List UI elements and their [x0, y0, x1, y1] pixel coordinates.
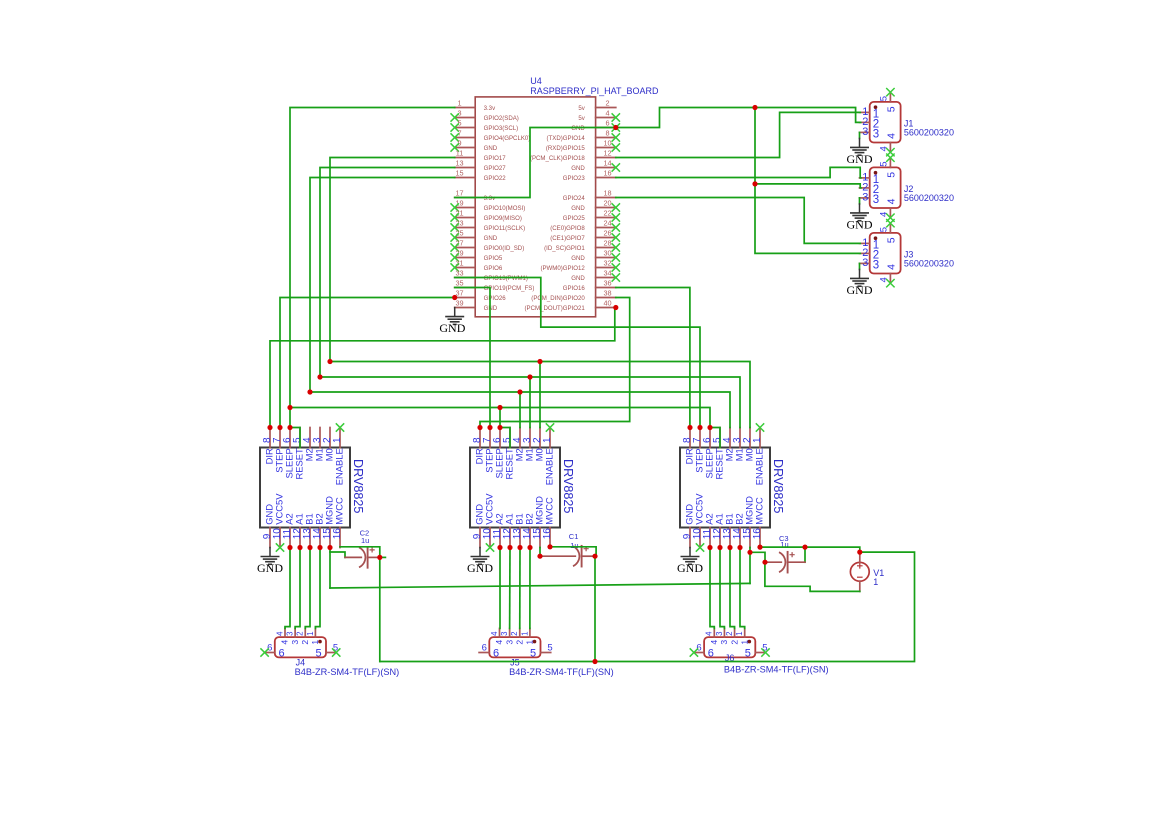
svg-text:3: 3: [873, 194, 879, 206]
U2 pin 4 M2: [512, 428, 525, 462]
wire M1 bus: [320, 377, 740, 428]
J6 pin 2: [725, 628, 739, 644]
svg-text:4: 4: [886, 133, 898, 139]
svg-text:5: 5: [547, 643, 552, 654]
wire U1 SLEEP-RESET jog: [290, 428, 300, 448]
svg-text:18: 18: [603, 189, 611, 198]
wire U1 SLEEP drop: [289, 408, 291, 428]
capacitor C3 1u: [779, 534, 795, 572]
svg-text:2: 2: [300, 640, 310, 645]
U2 pin 7 STEP: [482, 428, 495, 473]
U3 pin 2 M0: [742, 428, 755, 462]
svg-text:ENABLE: ENABLE: [334, 448, 345, 485]
J5 pin 1: [520, 628, 534, 644]
wire U3 A2 to J6 pin4: [710, 548, 714, 629]
U1 ENABLE no-connect X: [336, 423, 344, 431]
svg-text:J4: J4: [296, 658, 306, 668]
svg-text:3: 3: [286, 632, 295, 636]
svg-text:5: 5: [886, 237, 898, 243]
svg-text:5600200320: 5600200320: [904, 128, 954, 138]
svg-text:5: 5: [886, 172, 898, 178]
wire GPIO24 pin18 to J3 pin1: [616, 198, 860, 244]
wire M0 bus: [330, 362, 750, 428]
J1 pin 4 (bottom): [878, 133, 897, 157]
U2 pin 16 MVCC: [542, 497, 555, 548]
svg-text:5: 5: [530, 648, 536, 660]
svg-text:U4: U4: [530, 76, 542, 86]
svg-text:GPIO11(SCLK): GPIO11(SCLK): [484, 225, 526, 232]
wire U3 B1 to J6 pin2: [730, 548, 735, 629]
svg-text:5: 5: [886, 106, 898, 112]
svg-text:6: 6: [696, 643, 701, 654]
svg-text:GND: GND: [847, 152, 873, 166]
wire C2 positive lead: [368, 556, 380, 558]
wire U3 B2 to J6 pin1: [740, 548, 745, 629]
connector J3 5600200320 body: [870, 233, 954, 274]
U2 pin 3 M1: [522, 428, 535, 462]
U3 pin 3 M1: [732, 428, 745, 462]
svg-text:GND: GND: [571, 275, 585, 282]
svg-text:2: 2: [605, 99, 609, 108]
ground at J1 pin 3: [847, 132, 873, 165]
svg-text:GPIO10(MOSI): GPIO10(MOSI): [484, 205, 526, 212]
svg-text:6: 6: [267, 643, 272, 654]
U3 pin 8 DIR: [682, 428, 695, 465]
U4 pin 6 no-connect X under junction: [612, 123, 620, 131]
svg-text:GND: GND: [571, 165, 585, 172]
U2 pin 14 B2: [522, 513, 535, 547]
wire GPIO20 pin38 to U2 DIR: [480, 298, 630, 428]
svg-text:1u: 1u: [361, 536, 369, 545]
U1 pin 14 B2: [312, 513, 325, 547]
driver IC U3 DRV8825 body: [680, 448, 785, 528]
U1 pin 10 VCC5V: [272, 493, 285, 548]
wire U1 MVCC to C2 plus: [340, 547, 380, 558]
U1 pin 5 RESET: [292, 428, 305, 480]
U4 pin 21 GPIO9(MISO): [451, 209, 522, 222]
wire C2 plus down to supply line: [379, 557, 381, 661]
wire GPIO22 pin15 to M2 bus: [310, 178, 455, 393]
svg-text:28: 28: [603, 239, 611, 248]
wire GPIO23 pin16 to J2 pin1: [616, 167, 861, 178]
svg-text:1: 1: [310, 640, 320, 645]
J5 pin 5 (right): [530, 643, 553, 660]
svg-text:7: 7: [457, 129, 461, 138]
U4 pin 40 (PCM_DOUT)GPIO21: [525, 299, 616, 312]
svg-text:22: 22: [603, 209, 611, 218]
svg-text:GND: GND: [439, 321, 465, 335]
svg-text:J5: J5: [510, 658, 520, 668]
svg-text:33: 33: [455, 269, 463, 278]
svg-text:4: 4: [705, 631, 714, 636]
wire GPIO21 pin40 to U1 DIR: [270, 308, 616, 428]
wire GND pin6 to J trunk: [616, 108, 861, 128]
U4 pin 16 GPIO23: [563, 169, 616, 182]
svg-text:GPIO27: GPIO27: [484, 165, 507, 172]
U3 pin 12 A1: [712, 513, 725, 547]
U4 pin 29 GPIO5: [451, 249, 503, 262]
IC U4 RASPBERRY_PI_HAT_BOARD body: [475, 76, 659, 317]
U4 pin 20 GND: [571, 199, 620, 212]
svg-text:3: 3: [862, 192, 868, 204]
U4 pin 6 GND: [571, 119, 616, 132]
wire M2 bus drop to U2: [519, 392, 521, 428]
svg-text:4: 4: [275, 631, 284, 636]
svg-text:3: 3: [719, 640, 729, 645]
U3 pin 11 A2: [702, 513, 715, 547]
wire U3 MGND down to trunk: [749, 552, 751, 583]
svg-text:1: 1: [735, 632, 744, 636]
driver IC U1 DRV8825 body: [260, 448, 365, 528]
svg-text:ENABLE: ENABLE: [754, 448, 765, 485]
svg-text:GND: GND: [484, 145, 498, 152]
connector J2 5600200320 body: [870, 167, 954, 208]
svg-text:GPIO17: GPIO17: [484, 155, 507, 162]
svg-text:20: 20: [603, 199, 611, 208]
svg-text:(PCM_DOUT)GPIO21: (PCM_DOUT)GPIO21: [525, 305, 586, 312]
svg-text:GPIO24: GPIO24: [563, 195, 586, 202]
svg-text:6: 6: [605, 119, 609, 128]
svg-text:2: 2: [514, 640, 524, 645]
svg-text:5v: 5v: [578, 105, 585, 112]
svg-text:38: 38: [603, 289, 611, 298]
svg-text:3: 3: [504, 640, 514, 645]
svg-text:(RXD)GPIO15: (RXD)GPIO15: [546, 145, 586, 152]
U4 pin 12 (PCM_CLK)GPIO18: [530, 149, 616, 162]
J2 pin 3: [860, 192, 880, 207]
wire U1 B1 to J4 pin2: [305, 548, 310, 629]
svg-text:16: 16: [542, 528, 553, 540]
ground at J2 pin 3: [847, 198, 873, 231]
U4 pin 26 (CE1)GPIO7: [550, 229, 620, 242]
svg-text:8: 8: [605, 129, 609, 138]
wire M2 bus: [310, 392, 730, 428]
U2 pin 15 MGND: [532, 496, 545, 548]
U4 pin 8 (TXD)GPIO14: [547, 129, 620, 142]
J3 pin 5 (top): [878, 219, 897, 243]
svg-text:4: 4: [494, 640, 504, 645]
U2 pin 2 M0: [532, 428, 545, 462]
svg-text:GPIO22: GPIO22: [484, 175, 507, 182]
J6 pin 1: [735, 628, 749, 644]
U3 pin 4 M2: [722, 428, 735, 462]
svg-text:GPIO16: GPIO16: [563, 285, 586, 292]
U4 pin 10 (RXD)GPIO15: [546, 139, 620, 152]
U2 ENABLE no-connect X: [546, 423, 554, 431]
U4 pin 37 GPIO26: [455, 289, 507, 302]
U3 pin 16 MVCC: [752, 497, 765, 548]
U4 pin 30 GND: [571, 249, 620, 262]
J5 pin 2: [510, 628, 524, 644]
J6 pin 4: [705, 628, 719, 644]
J6 pin 5 no-connect X: [761, 648, 769, 656]
U3 pin 10 VCC5V: [692, 493, 705, 548]
U4 pin 17 3.3v: [455, 189, 496, 202]
svg-text:(CE0)GPIO8: (CE0)GPIO8: [550, 225, 585, 232]
wire MGND trunk (slanted): [330, 583, 750, 588]
wire SLEEP bus: [290, 408, 710, 428]
svg-text:14: 14: [603, 159, 611, 168]
U2 pin 12 A1: [502, 513, 515, 547]
U3 pin 6 SLEEP: [702, 428, 715, 479]
J5 pin 6 (left): [479, 643, 499, 660]
U4 pin 3 GPIO2(SDA): [451, 109, 519, 122]
U2 pin 13 B1: [512, 513, 525, 547]
U3 pin 7 STEP: [692, 428, 705, 473]
svg-text:GPIO2(SDA): GPIO2(SDA): [484, 115, 519, 122]
svg-text:B4B-ZR-SM4-TF(LF)(SN): B4B-ZR-SM4-TF(LF)(SN): [509, 667, 614, 677]
J4 pin 6 no-connect X: [260, 648, 268, 656]
svg-text:B4B-ZR-SM4-TF(LF)(SN): B4B-ZR-SM4-TF(LF)(SN): [295, 667, 400, 677]
capacitor C1 1u: [569, 532, 589, 567]
svg-text:3: 3: [715, 632, 724, 636]
svg-text:3: 3: [873, 129, 879, 141]
wire U2 MVCC to C1 plus: [550, 547, 596, 556]
svg-text:5v: 5v: [578, 115, 585, 122]
J1 pin 5 (top): [878, 88, 897, 112]
U4 pin 36 GPIO16: [563, 279, 616, 292]
U4 pin 33 GPIO13(PWM1): [455, 269, 528, 282]
wire U2 B1 to J5 pin2: [519, 548, 521, 629]
ground at U1 pin 9: [257, 548, 283, 575]
U3 pin 14 B2: [732, 513, 745, 547]
svg-text:C1: C1: [569, 532, 579, 541]
wire GND trunk drop to J3 pin2: [755, 184, 860, 254]
U4 pin 31 GPIO6: [451, 259, 503, 272]
ground at J3 pin 3: [847, 263, 873, 296]
svg-text:15: 15: [455, 169, 463, 178]
wire U3 A1 to J6 pin3: [720, 548, 724, 629]
wire U2 A2 to J5 pin4: [499, 548, 501, 629]
U1 pin 4 M2: [302, 428, 315, 462]
svg-text:32: 32: [603, 259, 611, 268]
svg-text:34: 34: [603, 269, 611, 278]
J4 pin 5 no-connect X: [332, 648, 340, 656]
svg-text:1: 1: [739, 640, 749, 645]
wire C1 plus down to supply line: [594, 556, 596, 661]
J4 pin 2: [296, 628, 310, 644]
U4 pin 38 (PCM_DIN)GPIO20: [531, 289, 616, 302]
svg-text:16: 16: [332, 528, 343, 540]
wire C2 plus stub right: [381, 556, 386, 558]
svg-text:26: 26: [603, 229, 611, 238]
U1 pin 6 SLEEP: [282, 428, 295, 479]
J2 pin 5 (top): [878, 154, 897, 178]
U4 pin 24 (CE0)GPIO8: [550, 219, 620, 232]
wire GPIO13 pin33 to U3 STEP: [455, 278, 700, 428]
svg-text:1: 1: [752, 437, 763, 443]
svg-text:9: 9: [457, 139, 461, 148]
U4 pin 35 GPIO19(PCM_FS): [455, 279, 535, 292]
svg-text:2: 2: [510, 632, 519, 636]
svg-text:30: 30: [603, 249, 611, 258]
U4 pin 23 GPIO11(SCLK): [451, 219, 526, 232]
svg-text:GPIO26: GPIO26: [484, 295, 507, 302]
wire C3 plus riser: [804, 547, 806, 562]
svg-text:GND: GND: [467, 561, 493, 575]
svg-text:6: 6: [482, 643, 487, 654]
U4 pin 4 5v: [578, 109, 620, 122]
J2 pin 4 (bottom): [878, 198, 897, 222]
svg-text:16: 16: [603, 169, 611, 178]
svg-text:4: 4: [886, 198, 898, 204]
ground at U4 pin 39: [439, 308, 465, 336]
U2 pin 9 GND: [472, 504, 485, 548]
svg-text:ENABLE: ENABLE: [544, 448, 555, 485]
wire U3 MVCC supply to V1 and bottom line: [380, 547, 915, 661]
U4 pin 34 GND: [571, 269, 620, 282]
J6 pin 3: [715, 628, 729, 644]
svg-text:(PCM_DIN)GPIO20: (PCM_DIN)GPIO20: [531, 295, 585, 302]
svg-text:DRV8825: DRV8825: [771, 459, 785, 513]
U4 pin 7 GPIO4(GPCLK0): [451, 129, 531, 142]
connector J5 B4B-ZR-SM4-TF(LF)(SN) body: [489, 637, 613, 677]
svg-text:1: 1: [525, 640, 535, 645]
svg-text:4: 4: [280, 640, 290, 645]
wire GND trunk drop to J2 pin2: [755, 108, 861, 188]
svg-text:GND: GND: [847, 283, 873, 297]
U4 pin 22 GPIO25: [563, 209, 620, 222]
U2 pin 1 ENABLE: [542, 428, 555, 486]
svg-text:6: 6: [279, 648, 285, 660]
svg-text:6: 6: [493, 648, 499, 660]
svg-text:13: 13: [455, 159, 463, 168]
U2 pin 5 RESET: [502, 428, 515, 480]
J4 pin 4: [275, 628, 289, 644]
J4 pin 1: [306, 628, 320, 644]
wire GPIO19 pin35 to U2 STEP: [455, 288, 490, 428]
svg-text:MVCC: MVCC: [544, 497, 555, 525]
svg-text:1: 1: [306, 632, 315, 636]
svg-text:5: 5: [878, 162, 889, 167]
driver IC U2 DRV8825 body: [470, 448, 575, 528]
svg-text:MVCC: MVCC: [334, 497, 345, 525]
wire GPIO27 pin13 to M1 bus: [320, 168, 455, 378]
svg-text:3: 3: [457, 109, 461, 118]
svg-text:GPIO9(MISO): GPIO9(MISO): [484, 215, 522, 222]
U4 pin 32 (PWM0)GPIO12: [540, 259, 620, 272]
svg-text:39: 39: [455, 299, 463, 308]
svg-text:5600200320: 5600200320: [904, 193, 954, 203]
U4 pin 9 GND: [451, 139, 498, 152]
wire U1 A2 to J4 pin4: [285, 548, 290, 629]
wire V1 minus return: [765, 562, 860, 591]
wire 3.3v pin17 riser: [455, 128, 616, 198]
U1 pin 15 MGND: [322, 496, 335, 548]
wire U2 SLEEP-RESET jog: [500, 428, 510, 448]
svg-text:5: 5: [457, 119, 461, 128]
svg-text:24: 24: [603, 219, 611, 228]
J5 pin 3: [500, 628, 514, 644]
capacitor C2 1u: [359, 528, 375, 567]
wire GPIO17 pin11 to M0 bus: [330, 158, 455, 362]
svg-text:(PWM0)GPIO12: (PWM0)GPIO12: [540, 265, 585, 272]
J3 pin 1: [860, 237, 880, 252]
wire U1 MGND to C2: [330, 548, 345, 558]
svg-text:36: 36: [603, 279, 611, 288]
U1 pin 7 STEP: [272, 428, 285, 473]
svg-text:4: 4: [490, 631, 499, 636]
J1 pin 3: [860, 126, 880, 141]
U1 pin 11 A2: [282, 513, 295, 547]
svg-text:GPIO6: GPIO6: [484, 265, 503, 272]
wire GPIO18 pin12 to J1 pin1: [616, 112, 860, 157]
svg-text:GND: GND: [571, 205, 585, 212]
svg-text:GPIO0(ID_SD): GPIO0(ID_SD): [484, 245, 525, 252]
svg-text:16: 16: [752, 528, 763, 540]
U3 pin 13 B1: [722, 513, 735, 547]
wire C2 negative lead: [345, 556, 361, 558]
svg-text:1: 1: [520, 632, 529, 636]
U4 pin 28 (ID_SC)GPIO1: [544, 239, 620, 252]
U3 pin 1 ENABLE: [752, 428, 765, 486]
U4 pin 2 5v: [578, 99, 615, 112]
J1 pin 1: [860, 106, 880, 121]
wire M0 bus drop to U2: [539, 362, 541, 428]
svg-text:11: 11: [456, 149, 464, 158]
wire 3.3v pin1 to SLEEP bus: [290, 108, 455, 408]
svg-text:2: 2: [729, 640, 739, 645]
U1 pin 9 GND: [262, 504, 275, 548]
svg-text:3: 3: [290, 640, 300, 645]
U4 pin 1 3.3v: [455, 99, 496, 112]
svg-text:GPIO5: GPIO5: [484, 255, 503, 262]
svg-text:5: 5: [316, 648, 322, 660]
wire U2 B2 to J5 pin1: [529, 548, 531, 629]
U4 pin 13 GPIO27: [455, 159, 507, 172]
svg-text:GND: GND: [257, 561, 283, 575]
svg-text:5: 5: [745, 648, 751, 660]
connector J1 5600200320 body: [870, 102, 954, 143]
svg-text:12: 12: [603, 149, 611, 158]
U2 pin 8 DIR: [472, 428, 485, 465]
wire U3 SLEEP-RESET jog: [710, 428, 720, 448]
svg-text:GPIO3(SCL): GPIO3(SCL): [484, 125, 519, 132]
J3 pin 2: [860, 247, 880, 262]
wire U2 MGND stub: [539, 548, 541, 557]
svg-text:(ID_SC)GPIO1: (ID_SC)GPIO1: [544, 245, 585, 252]
wire U1 B2 to J4 pin1: [315, 548, 320, 629]
svg-text:5600200320: 5600200320: [904, 259, 954, 269]
U4 pin 15 GPIO22: [455, 169, 507, 182]
svg-text:DRV8825: DRV8825: [351, 459, 365, 513]
svg-text:1: 1: [542, 437, 553, 443]
svg-text:(PCM_CLK)GPIO18: (PCM_CLK)GPIO18: [530, 155, 585, 162]
J6 pin 5 (right): [745, 643, 768, 660]
U4 pin 11 GPIO17: [455, 149, 507, 162]
svg-text:17: 17: [455, 189, 463, 198]
svg-text:RASPBERRY_PI_HAT_BOARD: RASPBERRY_PI_HAT_BOARD: [530, 86, 659, 96]
svg-text:5: 5: [878, 227, 889, 232]
svg-text:1: 1: [873, 577, 878, 587]
U2 VCC5V no-connect X: [486, 543, 494, 551]
svg-text:3: 3: [873, 260, 879, 272]
J3 pin 3: [860, 257, 880, 272]
svg-text:5: 5: [878, 96, 889, 101]
svg-text:(CE1)GPIO7: (CE1)GPIO7: [550, 235, 585, 242]
U1 VCC5V no-connect X: [276, 543, 284, 551]
U3 pin 5 RESET: [712, 428, 725, 480]
U4 pin 25 GND: [451, 229, 498, 242]
J5 pin 4: [490, 628, 504, 644]
ground at U3 pin 9: [677, 548, 703, 575]
J4 pin 3: [286, 628, 300, 644]
J2 pin 2: [860, 182, 880, 197]
svg-text:2: 2: [296, 632, 305, 636]
wire C3 negative lead: [765, 561, 781, 563]
svg-text:10: 10: [603, 139, 611, 148]
svg-text:GPIO23: GPIO23: [563, 175, 586, 182]
